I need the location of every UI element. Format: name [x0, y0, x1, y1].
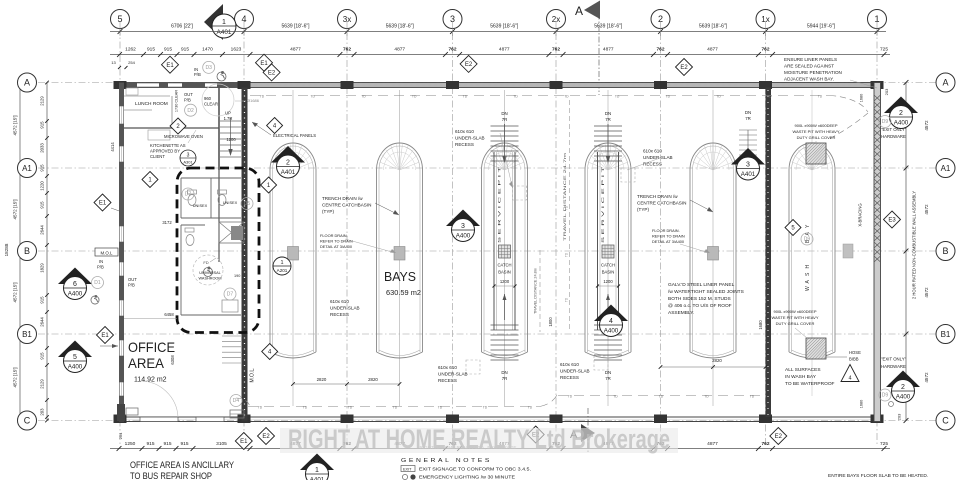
svg-text:1: 1	[222, 19, 226, 26]
svg-text:ARE SEALED AGAINST: ARE SEALED AGAINST	[784, 64, 834, 69]
svg-text:A1: A1	[22, 164, 32, 173]
svg-text:TD: TD	[483, 405, 488, 409]
svg-text:915: 915	[147, 47, 155, 53]
svg-text:TD: TD	[528, 405, 533, 409]
svg-text:915: 915	[180, 441, 188, 447]
svg-text:OFFICE AREA IS ANCILLARY: OFFICE AREA IS ANCILLARY	[130, 460, 234, 470]
svg-text:BOTH SIDES 152 M. STUDS: BOTH SIDES 152 M. STUDS	[668, 296, 731, 302]
svg-text:610x 610: 610x 610	[560, 362, 579, 367]
svg-text:610x 610: 610x 610	[455, 129, 474, 134]
svg-text:UNDER-SLAB: UNDER-SLAB	[455, 136, 485, 141]
svg-text:DN: DN	[605, 111, 611, 116]
svg-text:OFFICE: OFFICE	[128, 339, 175, 355]
svg-text:RECESS: RECESS	[438, 378, 457, 383]
svg-text:4572: 4572	[924, 120, 929, 131]
svg-text:3: 3	[187, 153, 190, 159]
svg-text:D9: D9	[804, 237, 811, 243]
svg-text:203: 203	[897, 413, 902, 420]
svg-text:ELECTRICAL PANELS: ELECTRICAL PANELS	[273, 133, 316, 138]
svg-text:D7: D7	[185, 192, 192, 198]
svg-text:P/B: P/B	[194, 72, 201, 77]
svg-text:D7: D7	[227, 292, 234, 298]
svg-text:FLOOR DRAIN.: FLOOR DRAIN.	[652, 228, 680, 233]
svg-text:2: 2	[286, 160, 290, 167]
svg-text:ASSEMBLY.: ASSEMBLY.	[668, 310, 694, 316]
svg-text:1470: 1470	[202, 47, 213, 53]
svg-text:915: 915	[40, 352, 45, 360]
svg-text:E1: E1	[166, 63, 174, 69]
svg-text:ADJACENT WASH BAY.: ADJACENT WASH BAY.	[784, 77, 834, 82]
svg-text:S E R V I C E P I T: S E R V I C E P I T	[497, 166, 502, 243]
svg-text:TD: TD	[258, 405, 263, 409]
svg-text:DUTY GRILL COVER: DUTY GRILL COVER	[776, 321, 815, 326]
svg-text:DN: DN	[605, 370, 611, 375]
svg-text:762: 762	[552, 47, 560, 53]
svg-text:DN: DN	[501, 111, 507, 116]
svg-text:4877: 4877	[707, 47, 718, 53]
svg-text:LUNCH ROOM: LUNCH ROOM	[135, 101, 168, 107]
svg-text:2033: 2033	[40, 143, 45, 153]
svg-text:REFER TO DRAIN: REFER TO DRAIN	[320, 239, 353, 244]
svg-text:TD: TD	[565, 252, 569, 257]
svg-text:4572: 4572	[924, 204, 929, 215]
svg-text:2: 2	[899, 110, 903, 117]
svg-text:(TYP): (TYP)	[322, 209, 334, 214]
svg-text:E1: E1	[99, 201, 107, 207]
svg-text:UNDER-SLAB: UNDER-SLAB	[438, 372, 468, 377]
svg-text:4877: 4877	[603, 47, 614, 53]
svg-text:4572: 4572	[924, 372, 929, 383]
svg-text:1200: 1200	[603, 279, 613, 284]
svg-text:HOSE: HOSE	[849, 350, 861, 355]
svg-text:6308: 6308	[170, 355, 175, 365]
svg-text:5639 [18'-6"]: 5639 [18'-6"]	[490, 24, 519, 30]
svg-text:7R: 7R	[605, 117, 611, 122]
svg-text:4572: 4572	[924, 287, 929, 298]
svg-text:13: 13	[111, 60, 116, 65]
svg-text:4877: 4877	[394, 47, 405, 53]
svg-text:H: H	[805, 265, 811, 269]
svg-text:762: 762	[761, 47, 769, 53]
svg-text:725: 725	[880, 441, 888, 447]
svg-text:E3: E3	[888, 218, 896, 224]
svg-text:AREA: AREA	[128, 355, 165, 371]
svg-text:EXIT SIGNAGE TO CONFORM TO OBC: EXIT SIGNAGE TO CONFORM TO OBC 3.4.5.	[419, 467, 531, 473]
svg-text:254: 254	[118, 432, 123, 439]
svg-text:203: 203	[884, 88, 889, 95]
svg-text:5944 [19'-6"]: 5944 [19'-6"]	[807, 24, 836, 30]
svg-text:MICROWAVE OVEN: MICROWAVE OVEN	[164, 134, 203, 139]
svg-text:A400: A400	[68, 291, 83, 298]
svg-text:4572 [15']: 4572 [15']	[13, 367, 18, 387]
svg-text:1623: 1623	[231, 47, 242, 53]
svg-text:762: 762	[343, 47, 351, 53]
svg-text:A401: A401	[310, 477, 325, 480]
svg-text:TD: TD	[303, 405, 308, 409]
svg-text:M.O.L: M.O.L	[101, 251, 114, 256]
svg-text:E1: E1	[240, 439, 248, 445]
svg-text:TD: TD	[393, 405, 398, 409]
svg-text:/w WATERTIGHT SEALED JOINTS: /w WATERTIGHT SEALED JOINTS	[668, 289, 744, 295]
svg-text:D9: D9	[882, 393, 889, 399]
svg-text:7R: 7R	[502, 117, 508, 122]
svg-text:4572 [15']: 4572 [15']	[13, 199, 18, 219]
svg-text:EMERGENCY LIGHTING /w 30 MINUT: EMERGENCY LIGHTING /w 30 MINUTE	[419, 475, 515, 480]
svg-text:BIBB: BIBB	[849, 357, 859, 362]
svg-text:CENTRE CATCHBASIN: CENTRE CATCHBASIN	[637, 201, 686, 206]
svg-text:915: 915	[146, 441, 154, 447]
svg-text:2820: 2820	[368, 377, 378, 382]
svg-text:E1: E1	[260, 61, 268, 67]
svg-text:A400: A400	[68, 364, 83, 371]
svg-text:B: B	[24, 246, 30, 256]
svg-text:D4: D4	[233, 398, 240, 404]
svg-text:UNDER-SLAB: UNDER-SLAB	[560, 369, 590, 374]
svg-text:BAYS: BAYS	[384, 269, 416, 284]
svg-text:725: 725	[880, 47, 888, 53]
svg-text:FD: FD	[203, 260, 208, 265]
svg-text:ALL SURFACES: ALL SURFACES	[785, 367, 821, 373]
svg-text:TD: TD	[666, 94, 671, 98]
svg-text:S E R V I C E P I T: S E R V I C E P I T	[600, 166, 605, 243]
svg-text:D1: D1	[94, 280, 101, 286]
svg-text:4572 [15']: 4572 [15']	[13, 115, 18, 135]
svg-text:X-BRACING: X-BRACING	[858, 203, 863, 226]
svg-text:TD: TD	[659, 394, 664, 398]
svg-text:630.59 m2: 630.59 m2	[386, 290, 421, 297]
svg-text:TO BUS REPAIR SHOP: TO BUS REPAIR SHOP	[130, 471, 212, 480]
svg-text:1829: 1829	[40, 263, 45, 273]
svg-text:960: 960	[204, 96, 212, 101]
svg-text:DETAIL AT 3/A400: DETAIL AT 3/A400	[652, 239, 685, 244]
svg-text:TD: TD	[260, 94, 265, 98]
svg-text:OUT: OUT	[184, 92, 193, 97]
svg-text:CLEAR: CLEAR	[204, 102, 218, 107]
svg-text:190: 190	[234, 274, 240, 278]
svg-text:TD: TD	[568, 394, 573, 398]
svg-text:2129: 2129	[40, 379, 45, 389]
svg-text:5639 [18'-6"]: 5639 [18'-6"]	[281, 24, 310, 30]
svg-text:TD: TD	[412, 94, 417, 98]
svg-text:203: 203	[40, 408, 45, 416]
svg-text:1.7R: 1.7R	[224, 116, 233, 121]
svg-text:3: 3	[461, 223, 465, 230]
svg-text:RECESS: RECESS	[455, 142, 474, 147]
svg-text:TD: TD	[818, 94, 823, 98]
svg-text:GENERAL NOTES: GENERAL NOTES	[401, 458, 492, 464]
svg-text:1730 CLEAR: 1730 CLEAR	[175, 90, 179, 112]
svg-text:A400: A400	[604, 328, 619, 335]
svg-text:6458: 6458	[164, 312, 174, 317]
svg-text:M.O.L.: M.O.L.	[250, 367, 256, 382]
svg-text:915: 915	[163, 441, 171, 447]
svg-text:OUT: OUT	[128, 277, 137, 282]
svg-text:D2: D2	[187, 108, 194, 114]
svg-text:1250: 1250	[125, 441, 136, 447]
svg-text:TD: TD	[438, 405, 443, 409]
svg-text:4: 4	[609, 318, 613, 325]
svg-text:IN: IN	[99, 259, 103, 264]
svg-text:254: 254	[128, 60, 135, 65]
svg-text:FLOOR DRAIN.: FLOOR DRAIN.	[320, 233, 348, 238]
svg-text:TO BE WATERPROOF: TO BE WATERPROOF	[785, 381, 835, 387]
svg-text:BASIN: BASIN	[498, 270, 511, 275]
svg-text:TRENCH DRAIN /w: TRENCH DRAIN /w	[322, 196, 363, 201]
svg-text:RECESS: RECESS	[643, 162, 662, 167]
svg-text:P/B: P/B	[97, 265, 104, 270]
svg-text:D3: D3	[205, 65, 212, 71]
svg-text:TD: TD	[750, 394, 755, 398]
svg-text:W: W	[805, 286, 811, 291]
svg-text:18288: 18288	[4, 243, 9, 256]
svg-text:1680: 1680	[860, 400, 864, 408]
svg-text:TD: TD	[767, 94, 772, 98]
svg-text:CLIENT: CLIENT	[150, 154, 165, 159]
svg-text:"EXIT ONLY": "EXIT ONLY"	[881, 127, 907, 132]
svg-text:7R: 7R	[745, 116, 751, 121]
svg-text:HARDWARE: HARDWARE	[881, 134, 906, 139]
svg-text:CENTRE CATCHBASIN: CENTRE CATCHBASIN	[322, 203, 371, 208]
svg-text:TD: TD	[565, 205, 569, 210]
svg-text:915: 915	[164, 47, 172, 53]
svg-text:E2: E2	[465, 62, 473, 68]
svg-text:1: 1	[315, 467, 319, 474]
svg-text:WASHROOM: WASHROOM	[198, 277, 221, 281]
svg-text:TD: TD	[463, 94, 468, 98]
svg-text:114.92 m2: 114.92 m2	[134, 377, 167, 384]
svg-text:6706 [22']: 6706 [22']	[171, 24, 193, 30]
svg-text:TD: TD	[310, 94, 315, 98]
svg-text:B1: B1	[22, 330, 32, 339]
svg-text:TRAVEL DISTANCE 24.8m: TRAVEL DISTANCE 24.8m	[534, 268, 538, 314]
svg-text:2644: 2644	[40, 317, 45, 327]
svg-text:UNISEX: UNISEX	[223, 200, 238, 205]
svg-text:4: 4	[848, 376, 851, 382]
svg-text:EXIT: EXIT	[403, 468, 412, 472]
svg-text:762: 762	[761, 441, 769, 447]
svg-text:E2: E2	[268, 71, 276, 77]
svg-text:MOISTURE PENETRATION: MOISTURE PENETRATION	[784, 70, 842, 75]
svg-text:3172: 3172	[162, 220, 172, 225]
svg-text:A1: A1	[941, 164, 951, 173]
svg-text:610x 610: 610x 610	[438, 365, 457, 370]
svg-text:TD: TD	[716, 94, 721, 98]
svg-text:A401: A401	[741, 171, 756, 178]
svg-text:TD: TD	[361, 94, 366, 98]
svg-text:1680: 1680	[860, 94, 864, 102]
svg-text:TD: TD	[613, 394, 618, 398]
svg-text:DETAIL AT 3/A400: DETAIL AT 3/A400	[320, 244, 353, 249]
svg-text:6: 6	[73, 281, 77, 288]
svg-text:A401: A401	[281, 169, 296, 176]
svg-text:WASTE PIT WITH HEAVY: WASTE PIT WITH HEAVY	[771, 315, 818, 320]
svg-text:CATCH: CATCH	[497, 263, 511, 268]
svg-text:915: 915	[40, 121, 45, 129]
svg-text:TRENCH DRAIN /w: TRENCH DRAIN /w	[637, 194, 678, 199]
svg-text:E2: E2	[775, 434, 783, 440]
svg-text:3105: 3105	[216, 441, 227, 447]
svg-text:CATCH: CATCH	[601, 263, 615, 268]
svg-text:A: A	[575, 4, 583, 18]
svg-text:4877: 4877	[290, 47, 301, 53]
svg-text:A: A	[942, 78, 948, 88]
svg-text:TD: TD	[704, 394, 709, 398]
svg-text:762: 762	[656, 47, 664, 53]
svg-text:B: B	[942, 246, 948, 256]
svg-text:E2: E2	[262, 434, 270, 440]
svg-text:3: 3	[746, 162, 750, 169]
svg-text:APPROVED BY: APPROVED BY	[150, 149, 180, 154]
svg-text:TD: TD	[615, 94, 620, 98]
svg-text:5639 [18'-6"]: 5639 [18'-6"]	[699, 24, 728, 30]
svg-text:A400: A400	[896, 394, 911, 401]
svg-text:UNDER-SLAB: UNDER-SLAB	[330, 306, 360, 311]
svg-text:GALV.'D STEEL LINER PANEL: GALV.'D STEEL LINER PANEL	[668, 282, 735, 288]
svg-text:2644: 2644	[40, 225, 45, 235]
svg-text:4414: 4414	[110, 142, 115, 152]
svg-text:RECESS: RECESS	[330, 312, 349, 317]
svg-text:915: 915	[40, 296, 45, 304]
svg-text:TD: TD	[565, 297, 569, 302]
svg-text:900L x900W x600DEEP: 900L x900W x600DEEP	[795, 123, 838, 128]
svg-text:7R: 7R	[605, 376, 611, 381]
svg-text:WASTE PIT WITH HEAVY: WASTE PIT WITH HEAVY	[792, 129, 839, 134]
svg-text:A: A	[24, 78, 30, 88]
svg-text:762: 762	[448, 47, 456, 53]
svg-text:1200: 1200	[500, 279, 510, 284]
svg-text:RIGHT AT HOME REALTY LTD., BRO: RIGHT AT HOME REALTY LTD., BROKERAGE	[420, 445, 517, 450]
svg-text:UNDER-SLAB: UNDER-SLAB	[643, 155, 673, 160]
svg-text:Ø1686: Ø1686	[247, 98, 260, 103]
svg-text:KITCHENETTE AS: KITCHENETTE AS	[150, 143, 186, 148]
svg-text:A201: A201	[277, 268, 288, 273]
svg-text:TD: TD	[564, 94, 569, 98]
svg-text:2820: 2820	[712, 358, 722, 363]
svg-text:@ 406 o.c. TO U/S OF ROO: @ 406 o.c. TO U/S OF ROOF	[668, 303, 732, 309]
svg-text:4877: 4877	[707, 441, 718, 447]
svg-text:1262: 1262	[125, 47, 136, 53]
svg-text:REFER TO DRAIN: REFER TO DRAIN	[652, 234, 685, 239]
svg-text:7R: 7R	[502, 376, 508, 381]
svg-text:DN: DN	[501, 370, 507, 375]
svg-text:ENSURE LINER PANELS: ENSURE LINER PANELS	[784, 57, 837, 62]
svg-text:A400: A400	[456, 233, 471, 240]
svg-text:5639 [18'-6"]: 5639 [18'-6"]	[594, 24, 623, 30]
svg-text:TRAVEL DISTANCE 24.7m: TRAVEL DISTANCE 24.7m	[563, 153, 567, 241]
svg-text:915: 915	[40, 201, 45, 209]
svg-text:2: 2	[901, 384, 905, 391]
svg-text:2 HOUR RATED NON-COMBUSTIBLE W: 2 HOUR RATED NON-COMBUSTIBLE WALL ASSEMB…	[912, 191, 917, 299]
svg-text:610x 610: 610x 610	[643, 149, 662, 154]
svg-text:HARDWARE: HARDWARE	[881, 364, 906, 369]
svg-text:B1: B1	[941, 330, 951, 339]
svg-text:IN WASH BAY: IN WASH BAY	[785, 374, 817, 380]
svg-text:1200: 1200	[226, 137, 236, 142]
svg-text:A401: A401	[217, 29, 232, 36]
svg-text:2820: 2820	[317, 377, 327, 382]
svg-text:DN: DN	[745, 110, 751, 115]
svg-text:P/B: P/B	[128, 283, 135, 288]
svg-text:4877: 4877	[499, 47, 510, 53]
svg-text:UNISEX: UNISEX	[193, 203, 208, 208]
svg-text:915: 915	[40, 164, 45, 172]
svg-text:A301: A301	[183, 160, 193, 165]
svg-text:DUTY GRILL COVER: DUTY GRILL COVER	[797, 135, 836, 140]
svg-text:TD: TD	[513, 94, 518, 98]
svg-text:UP: UP	[225, 111, 231, 116]
svg-text:E2: E2	[680, 65, 688, 71]
svg-text:5: 5	[73, 354, 77, 361]
svg-text:(TYP): (TYP)	[637, 207, 649, 212]
svg-text:D5: D5	[244, 201, 251, 207]
svg-text:UNIVERSAL: UNIVERSAL	[199, 271, 221, 275]
svg-text:RECESS: RECESS	[560, 375, 579, 380]
svg-text:1800: 1800	[548, 317, 553, 327]
svg-text:C: C	[942, 416, 949, 426]
svg-text:610x 610: 610x 610	[330, 299, 349, 304]
svg-text:915: 915	[181, 47, 189, 53]
svg-text:TD: TD	[348, 405, 353, 409]
svg-text:1680: 1680	[758, 320, 763, 330]
svg-text:E1: E1	[101, 333, 109, 339]
svg-text:A400: A400	[894, 120, 909, 127]
svg-text:D9: D9	[882, 119, 889, 125]
svg-text:2129: 2129	[40, 96, 45, 106]
svg-text:"EXIT ONLY": "EXIT ONLY"	[881, 357, 907, 362]
svg-text:900L x900W x600DEEP: 900L x900W x600DEEP	[774, 309, 817, 314]
svg-text:4572 [15']: 4572 [15']	[13, 282, 18, 302]
svg-text:5639 [18'-6"]: 5639 [18'-6"]	[386, 24, 415, 30]
svg-text:C: C	[24, 416, 31, 426]
svg-text:BASIN: BASIN	[602, 270, 615, 275]
svg-text:1: 1	[280, 260, 283, 266]
svg-text:1220: 1220	[40, 181, 45, 191]
svg-text:ENTIRE BAYS FLOOR SLAB TO: ENTIRE BAYS FLOOR SLAB TO BE HEATED.	[828, 473, 928, 479]
svg-text:P/B: P/B	[184, 98, 191, 103]
